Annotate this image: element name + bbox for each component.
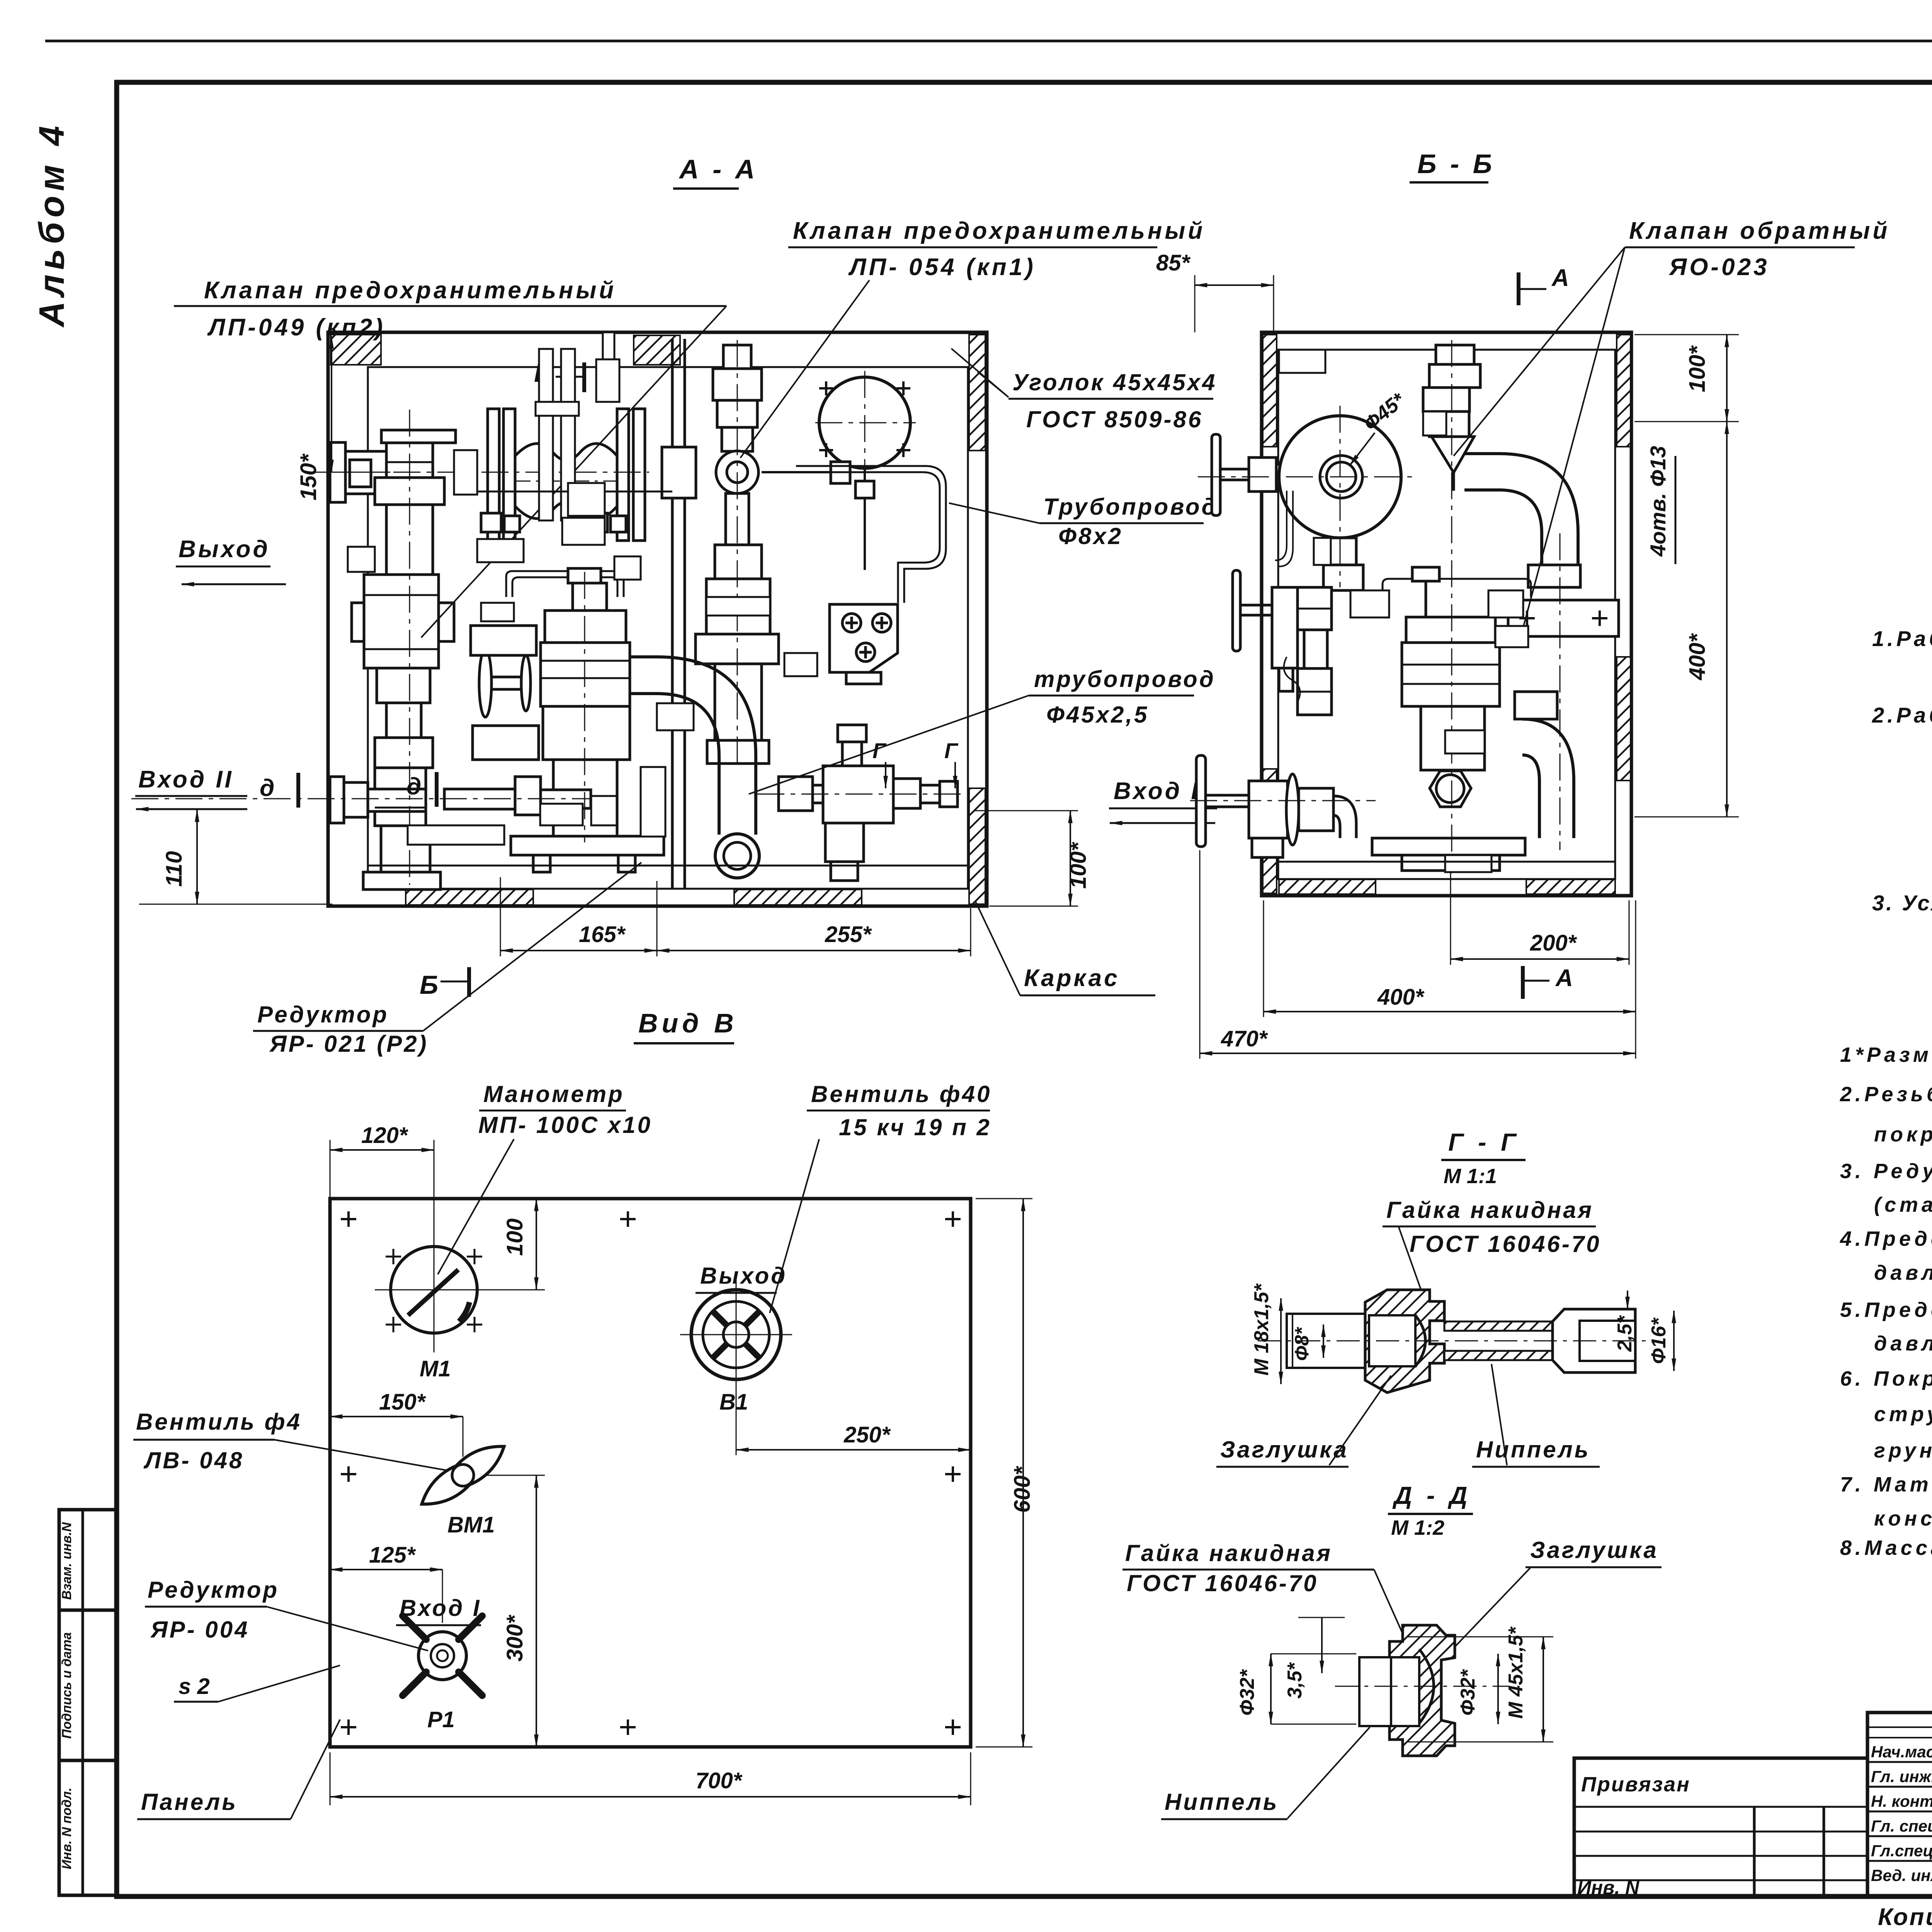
svg-text:Клапан обратный: Клапан обратный [1629,218,1890,244]
svg-text:4отв. Ф13: 4отв. Ф13 [1646,446,1670,557]
svg-text:Клапан предохранительный: Клапан предохранительный [793,218,1205,244]
label valve F4 [136,1409,302,1473]
B-B leaders, dims, labels [1156,218,1890,1059]
svg-text:покрыть тонким слоем смазки ЦИ: покрыть тонким слоем смазки ЦИАТИМ-205 Г… [1874,1123,1932,1146]
label valve LP-049 KP2 [204,277,616,341]
plug dome [1419,1649,1434,1723]
A-A leaders, dims and labels [135,218,1218,1000]
svg-text:7. Материал труб- сталь марки: 7. Материал труб- сталь марки В20; матер… [1840,1473,1932,1496]
svg-text:Привязан: Привязан [1581,1773,1690,1796]
label check valve YAO-023 [1629,218,1890,281]
dim 600 [1010,1466,1035,1513]
svg-text:150*: 150* [379,1389,426,1415]
svg-text:85*: 85* [1156,250,1191,276]
svg-text:Гайка накидная: Гайка накидная [1386,1197,1594,1223]
dim 150 [379,1389,426,1415]
svg-text:Инв. N подл.: Инв. N подл. [60,1787,74,1869]
gauge M1 front [391,1247,477,1333]
svg-text:Ф8х2: Ф8х2 [1058,523,1123,549]
dim 100 right [1685,345,1710,392]
svg-text:2.Рабочее давление:: 2.Рабочее давление: [1872,703,1932,727]
svg-text:М 45х1,5*: М 45х1,5* [1505,1626,1527,1719]
bellows body [515,444,617,460]
svg-text:Каркас: Каркас [1024,965,1120,992]
label pipe F45x2.5 [1034,666,1216,728]
svg-text:200*: 200* [1530,930,1577,956]
svg-text:А: А [1555,965,1573,992]
svg-text:ГОСТ 16046-70: ГОСТ 16046-70 [1410,1231,1601,1257]
view V panel [330,1008,971,1747]
B-B centerlines and extra details [1190,340,1560,873]
label s2 [179,1674,210,1699]
svg-text:Г: Г [872,738,887,763]
section view B-B [1196,149,1631,896]
section mark B top [534,358,553,388]
svg-text:конструкций - сталь Ст3.: конструкций - сталь Ст3. [1874,1507,1932,1530]
svg-text:Вентиль ф4: Вентиль ф4 [136,1409,302,1435]
svg-text:Редуктор: Редуктор [257,1002,389,1027]
nipple stub [1359,1657,1391,1726]
svg-text:Ф32*: Ф32* [1236,1669,1259,1716]
top left handwheel valve [1212,434,1220,515]
svg-text:трубопровод: трубопровод [1034,666,1216,692]
label pipe F8x2 [1043,494,1218,549]
technical characteristics text block [1872,565,1932,915]
svg-text:150*: 150* [296,453,321,500]
stamp box Privyazan [1574,1758,1867,1898]
svg-text:Вентиль ф40: Вентиль ф40 [811,1081,992,1107]
svg-text:Заглушка: Заглушка [1530,1537,1658,1563]
label manometer [478,1081,652,1138]
svg-text:250*: 250* [844,1422,891,1447]
label nipple [1476,1437,1590,1463]
A-A cabinet frame [328,332,987,906]
svg-text:М1: М1 [420,1356,451,1381]
svg-text:Гл. инж.: Гл. инж. [1871,1767,1932,1786]
svg-text:2,5*: 2,5* [1614,1315,1636,1352]
svg-text:ГОСТ 16046-70: ГОСТ 16046-70 [1127,1570,1318,1596]
svg-text:Гл.спец.: Гл.спец. [1871,1842,1932,1860]
top center valve stack [1436,345,1474,364]
detail G-G [1216,1128,1674,1467]
svg-text:125*: 125* [369,1543,416,1568]
svg-text:400*: 400* [1685,633,1710,680]
valve P1 cross handle [418,1632,466,1680]
svg-text:700*: 700* [696,1768,743,1793]
thin S tube left [1276,491,1287,561]
svg-text:Д - Д: Д - Д [1392,1481,1471,1509]
svg-text:М 18х1,5*: М 18х1,5* [1250,1283,1273,1376]
section mark A top [1551,265,1569,291]
middle left handwheel [1233,570,1240,651]
svg-text:Выход: Выход [179,536,270,563]
label cap nut GOST [1386,1197,1601,1257]
elbow pipe F45 [630,657,756,835]
svg-text:ЛВ- 048: ЛВ- 048 [143,1447,244,1473]
label Vhod II [138,766,234,793]
label nipple [1165,1789,1279,1815]
svg-text:3. Редукторы ЯР- 004 и ЯР- 021: 3. Редукторы ЯР- 004 и ЯР- 021 настроить… [1840,1160,1932,1183]
label plug [1220,1437,1349,1463]
dim 100 right [1066,842,1091,889]
svg-text:д: д [260,775,274,801]
svg-text:грунтовке ГФ-03К ГОСТ 9109-81: грунтовке ГФ-03К ГОСТ 9109-81 (1слой). [1874,1439,1932,1462]
left outlet pipe with flange (Vyhod) [330,442,345,502]
left vertical valve column [381,430,456,443]
svg-text:Гл. спец.: Гл. спец. [1871,1817,1932,1835]
svg-text:120*: 120* [361,1123,408,1148]
svg-text:Вход II: Вход II [138,766,234,793]
svg-text:Взам. инв.N: Взам. инв.N [60,1522,74,1600]
dim 470 bottom [1221,1026,1268,1051]
svg-text:Нач.маст.: Нач.маст. [1871,1743,1932,1761]
svg-text:МП- 100С х10: МП- 100С х10 [478,1112,652,1138]
big elbow to right [1464,454,1578,565]
view V title [638,1008,738,1038]
label valve LP-054 kp1 [793,218,1205,281]
svg-text:ГОСТ 8509-86: ГОСТ 8509-86 [1026,406,1203,432]
svg-text:ЯР- 004: ЯР- 004 [150,1617,250,1643]
svg-text:Альбом 4: Альбом 4 [32,121,71,328]
svg-text:3,5*: 3,5* [1284,1662,1306,1699]
svg-text:Гайка накидная: Гайка накидная [1125,1540,1332,1566]
svg-text:600*: 600* [1010,1466,1035,1513]
svg-text:1.Рабочая среда- воздух, с точ: 1.Рабочая среда- воздух, с точкой росы н… [1872,626,1932,651]
B-B cabinet frame [1262,332,1631,896]
label Karkas [1024,965,1120,992]
bent tube F8x2 [796,466,946,603]
label panel [141,1789,238,1815]
svg-text:Ниппель: Ниппель [1476,1437,1590,1463]
G-G dims [1250,1283,1273,1376]
svg-text:Н. контр.: Н. контр. [1871,1792,1932,1810]
svg-text:ЛП-049 (кп2): ЛП-049 (кп2) [207,314,386,341]
label corner angle [1012,369,1217,432]
cap nut body [1365,1290,1444,1393]
label cap nut GOST [1125,1540,1332,1596]
nipple shaft [1444,1321,1553,1331]
svg-text:100*: 100* [1685,345,1710,392]
section view A-A [328,154,987,906]
svg-text:100*: 100* [1066,842,1091,889]
label Vyhod [179,536,270,563]
svg-text:s 2: s 2 [179,1674,210,1699]
sheet trim border top [45,40,1932,43]
svg-text:ЯР- 021 (Р2): ЯР- 021 (Р2) [269,1031,429,1057]
svg-text:Подпись и дата: Подпись и дата [60,1632,74,1739]
bottom margin annotations [1878,1902,1932,1932]
svg-text:Б - Б: Б - Б [1417,149,1495,179]
dim 700 [696,1768,743,1793]
svg-text:струкций - эмаль серая ПФ-115: струкций - эмаль серая ПФ-115 ГОСТ 6465-… [1874,1403,1932,1426]
signature table [1867,1713,1932,1896]
svg-text:300*: 300* [502,1614,527,1662]
svg-text:Вход I: Вход I [400,1595,481,1621]
dim 400 right [1685,633,1710,680]
A-A centerlines and extra details [131,340,966,885]
svg-text:2.Резьбовые соединения и места: 2.Резьбовые соединения и места уплотнени… [1840,1083,1932,1106]
svg-text:255*: 255* [825,922,872,947]
svg-text:400*: 400* [1377,985,1425,1010]
dim 150 left [296,453,321,500]
svg-text:Г - Г: Г - Г [1448,1128,1520,1156]
svg-text:ЯО-023: ЯО-023 [1668,254,1770,281]
svg-text:Р1: Р1 [427,1707,455,1732]
right angle bracket with plus [1508,600,1619,636]
dim 165 bottom [579,922,626,947]
detail D-D [1122,1481,1662,1819]
valve B1 handwheel [691,1290,781,1379]
svg-text:4.Предохранительный клапан ЯП: 4.Предохранительный клапан ЯП-054 (кп1) … [1840,1227,1932,1250]
vertical partition plate [671,339,674,889]
svg-text:Б: Б [420,970,438,1000]
left stamp column [59,1510,117,1895]
reducer cluster center [1383,579,1531,597]
dim 125 [369,1543,416,1568]
svg-text:100: 100 [502,1218,527,1256]
right C-pipe [1522,719,1574,838]
svg-text:470*: 470* [1221,1026,1268,1051]
svg-text:8.Масса изделия ~ 66 кг.: 8.Масса изделия ~ 66 кг. [1840,1536,1932,1560]
svg-text:М 1:1: М 1:1 [1444,1165,1497,1188]
lower right fitting run [779,777,813,811]
technical requirements text block [1840,985,1932,1560]
label reducer YAR-004 [148,1577,279,1643]
svg-text:давление равное Р = 0,28 МПа: давление равное Р = 0,28 МПа ( 2,8 кгс/ … [1874,1261,1932,1284]
svg-text:Инв. N: Инв. N [1577,1877,1639,1898]
bolt bracket [830,604,898,672]
label valve F40 [811,1081,992,1140]
svg-text:15 кч 19 п 2: 15 кч 19 п 2 [839,1114,992,1140]
svg-text:(статическое) равное Рвых = 0,: (статическое) равное Рвых = 0,25 МПа ( 2… [1874,1193,1932,1216]
top right safety valve stack (LP-054) [723,345,751,369]
cap nut body [1377,1625,1455,1756]
svg-text:5.Предохранительный клапан АП: 5.Предохранительный клапан АП- 049 (кп2)… [1840,1298,1932,1321]
section mark D letters [260,775,274,801]
bolts under bellows [481,513,501,532]
svg-text:А - А: А - А [679,154,758,184]
reducer YAR-021 cluster [506,571,624,597]
svg-text:д: д [406,773,421,800]
top bellows flange pair left [488,409,499,541]
label plug [1530,1537,1658,1563]
svg-text:Ф32*: Ф32* [1457,1669,1479,1716]
dim 300 [502,1614,527,1662]
dim 85 top [1156,250,1191,276]
gauge circle back view [819,377,910,468]
svg-text:Вход I: Вход I [1114,778,1200,804]
dim 120 [361,1123,408,1148]
dim 100 [502,1218,527,1256]
section mark B bottom [420,970,438,1000]
svg-text:ВМ1: ВМ1 [447,1512,495,1537]
dim 110 [162,851,187,887]
svg-text:Выход: Выход [700,1263,787,1289]
fitting thread left part [1287,1314,1366,1368]
svg-text:Редуктор: Редуктор [148,1577,279,1603]
lower-left inlet pipe (Vhod II) [330,777,344,823]
svg-text:Ф16*: Ф16* [1648,1317,1670,1364]
svg-text:6. Покрытие трубопроводов- эма: 6. Покрытие трубопроводов- эмаль черная,… [1840,1367,1932,1390]
section mark G marks [872,738,887,763]
label Vhod I [1114,778,1200,804]
svg-text:Уголок 45х45х4: Уголок 45х45х4 [1012,369,1217,395]
svg-text:Вид В: Вид В [638,1008,738,1038]
A-A title [679,154,758,184]
svg-text:Заглушка: Заглушка [1220,1437,1349,1463]
svg-text:Панель: Панель [141,1789,238,1815]
label reducer YAR-021 [257,1002,429,1057]
top bellows flange pair right [617,409,629,541]
svg-text:А: А [1551,265,1569,291]
panel plate [330,1199,971,1747]
svg-text:М 1:2: М 1:2 [1391,1516,1444,1539]
label 4 holes F13 [1646,446,1670,557]
svg-text:Ф45х2,5: Ф45х2,5 [1046,702,1149,728]
bottom left inlet valve with big wheel [1196,755,1206,847]
valve BM1 wing handle [414,1436,512,1515]
svg-text:1*Размеры для справок .: 1*Размеры для справок . [1840,1043,1932,1066]
B-B title [1417,149,1495,179]
nipple head [1553,1309,1635,1372]
dim 400 bottom [1377,985,1425,1010]
svg-text:3. Условия эксплуатации: темпе: 3. Условия эксплуатации: температура, °С… [1872,891,1932,915]
dim 200 bottom [1530,930,1577,956]
svg-text:Трубопровод: Трубопровод [1043,494,1218,520]
left column small blocks [1298,587,1332,630]
svg-text:Клапан предохранительный: Клапан предохранительный [204,277,616,304]
svg-text:давление равное р = 6,6 МПа (6: давление равное р = 6,6 МПа (66 кгс/ см²… [1874,1332,1932,1355]
under circle neck [1330,538,1356,565]
svg-text:Ф8*: Ф8* [1291,1327,1313,1361]
svg-text:110: 110 [162,851,187,887]
D-D dims [1236,1669,1259,1716]
dim 250 [844,1422,891,1447]
section mark A bottom [1555,965,1573,992]
svg-text:Г: Г [944,738,959,763]
dim 255 bottom [825,922,872,947]
svg-text:165*: 165* [579,922,626,947]
svg-text:Вед. инж.: Вед. инж. [1871,1866,1932,1884]
svg-text:ЛП- 054 (кп1): ЛП- 054 (кп1) [848,254,1036,281]
big circle with F45 bore [1279,416,1401,538]
corner plus marks [341,1211,961,1735]
svg-text:В1: В1 [719,1389,748,1415]
svg-text:Ниппель: Ниппель [1165,1789,1279,1815]
svg-text:Манометр: Манометр [483,1081,624,1107]
svg-text:Копир.: Копир. [1878,1904,1932,1930]
